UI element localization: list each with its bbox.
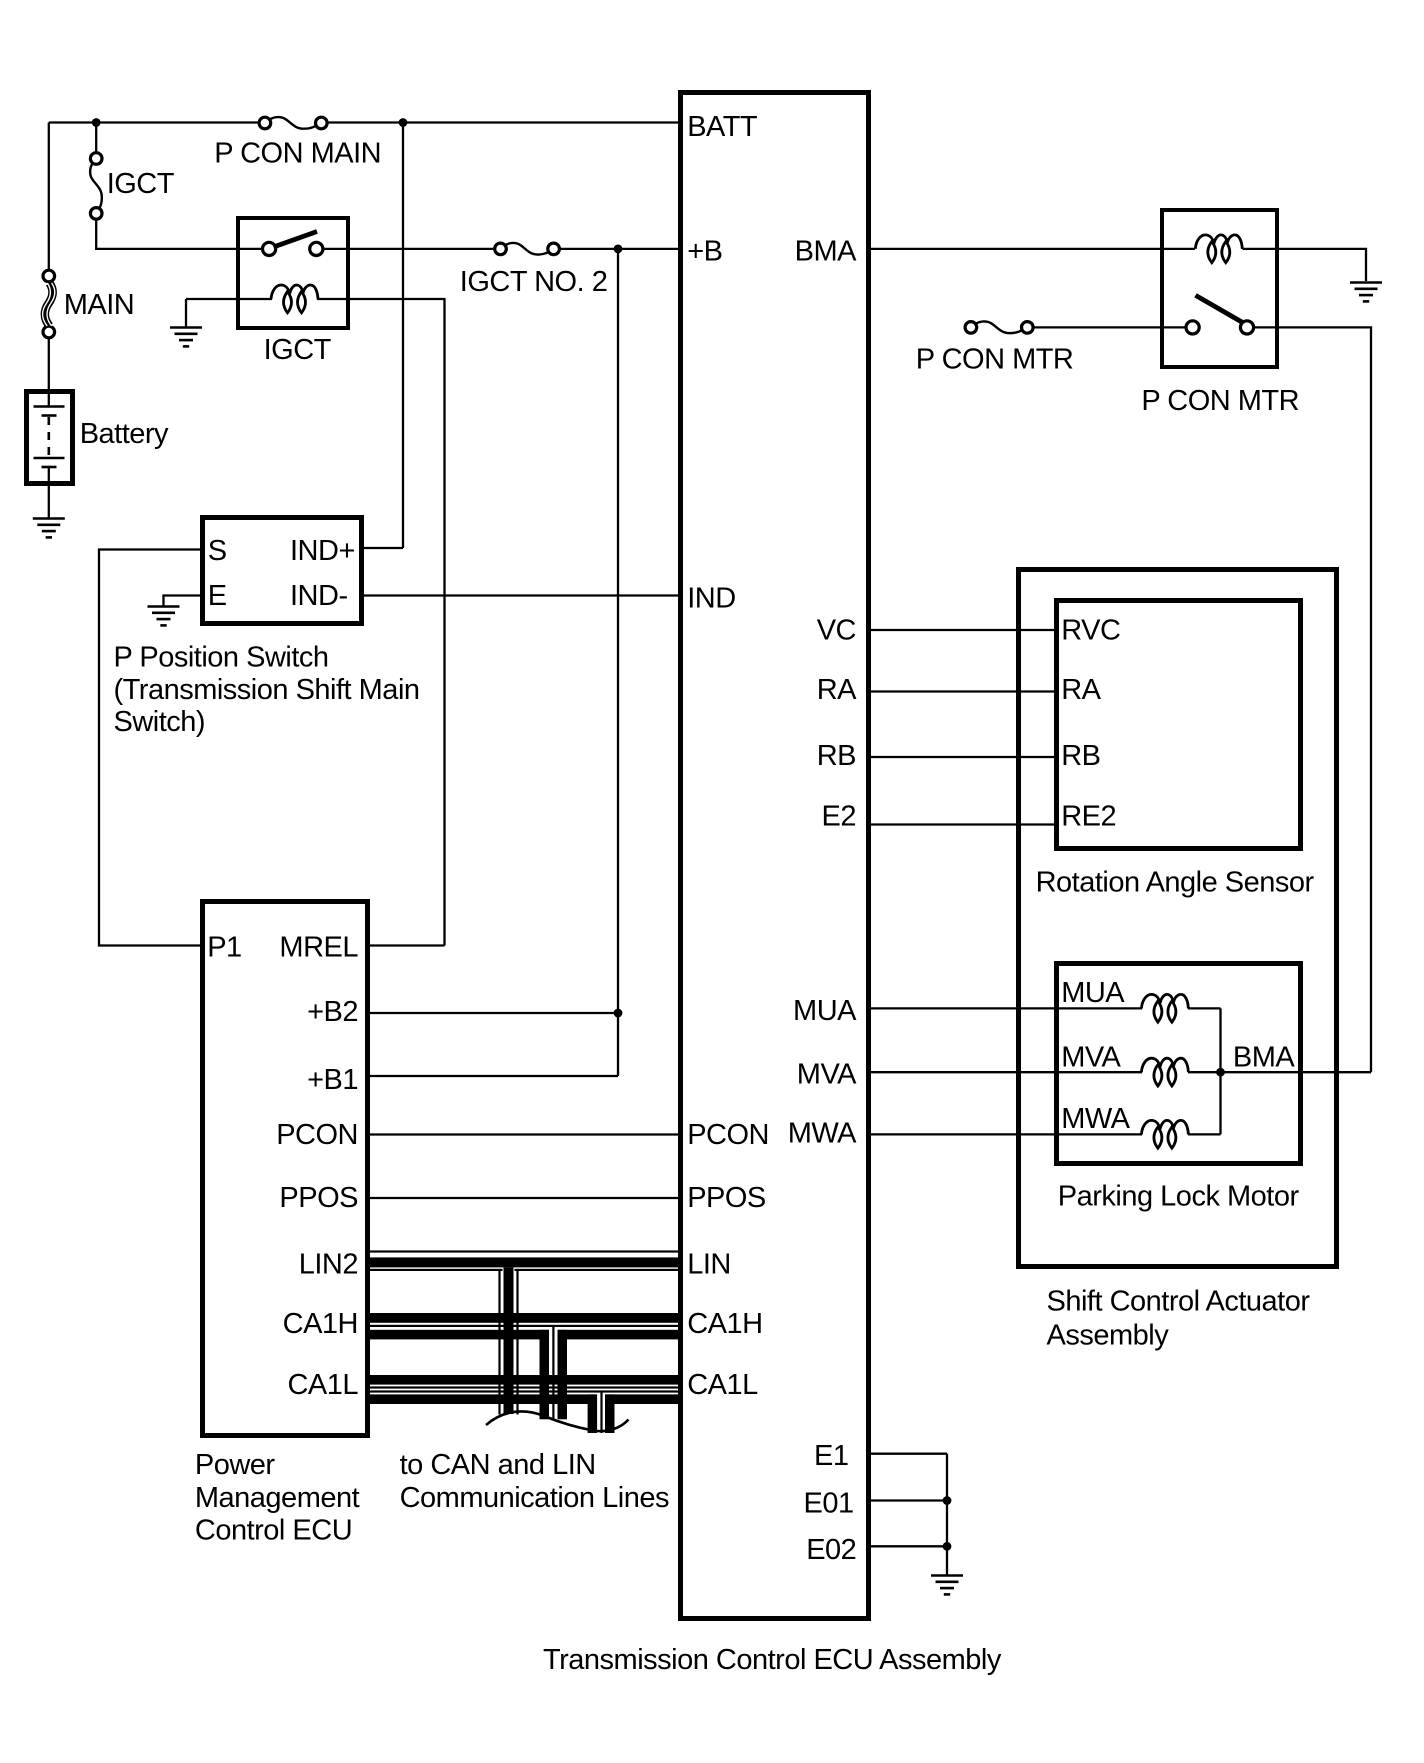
svg-text:Switch): Switch) xyxy=(114,706,206,738)
fuse P CON MTR xyxy=(965,321,1033,333)
fuse MAIN (fusible link) xyxy=(43,270,55,338)
svg-text:VC: VC xyxy=(817,615,856,647)
wire: IND- to ECU IND xyxy=(364,594,678,596)
svg-text:CA1H: CA1H xyxy=(687,1308,762,1340)
coil MUA winding xyxy=(1141,994,1188,1022)
wire: fuse output to ECU BATT xyxy=(328,121,678,123)
wire: E1 xyxy=(871,1453,947,1455)
wire: fuse to ECU +B xyxy=(560,248,678,250)
relay IGCT switch contacts xyxy=(263,242,276,255)
bus CA1L cable xyxy=(368,1375,680,1404)
svg-text:MVA: MVA xyxy=(1061,1041,1121,1073)
sensor box Rotation Angle Sensor xyxy=(1057,601,1301,849)
break mark squiggle xyxy=(486,1411,629,1431)
svg-text:Communication Lines: Communication Lines xyxy=(400,1482,669,1514)
wire: battery to ground xyxy=(48,467,50,518)
PMC box Power Management Control ECU xyxy=(203,902,368,1436)
relay P CON MTR switch contacts xyxy=(1186,321,1199,334)
svg-text:MUA: MUA xyxy=(793,995,857,1027)
svg-text:(Transmission Shift Main: (Transmission Shift Main xyxy=(114,674,420,706)
svg-text:Battery: Battery xyxy=(80,418,169,450)
svg-text:Transmission Control ECU Assem: Transmission Control ECU Assembly xyxy=(543,1644,1002,1676)
wire: +B junction down to +B1 level xyxy=(617,249,619,1076)
ECU box Transmission Control ECU Assembly xyxy=(681,93,869,1619)
svg-text:Management: Management xyxy=(195,1482,360,1514)
svg-text:MAIN: MAIN xyxy=(64,289,135,321)
wire: left battery column vertical xyxy=(48,123,50,271)
svg-text:+B: +B xyxy=(687,236,722,268)
svg-text:E2: E2 xyxy=(822,801,856,833)
wire: MUA coil out xyxy=(1188,1007,1221,1009)
relay P CON MTR switch blade xyxy=(1196,295,1244,323)
bus LIN branch xyxy=(498,1267,518,1414)
svg-text:IGCT: IGCT xyxy=(264,334,332,366)
wire: E2 to RE2 xyxy=(871,823,1054,825)
svg-text:IND-: IND- xyxy=(290,580,348,612)
svg-text:CA1H: CA1H xyxy=(283,1308,358,1340)
switch box P Position Switch xyxy=(203,518,362,624)
wire: MVA coil out xyxy=(1188,1071,1221,1073)
wire: motor BMA out xyxy=(1221,1071,1372,1073)
svg-text:MUA: MUA xyxy=(1061,977,1125,1009)
bus CA1H branch xyxy=(540,1327,568,1419)
svg-text:MWA: MWA xyxy=(1061,1103,1130,1135)
svg-text:PPOS: PPOS xyxy=(687,1182,766,1214)
svg-text:RA: RA xyxy=(817,674,857,706)
svg-text:E02: E02 xyxy=(806,1534,856,1566)
wire: MWA coil out xyxy=(1188,1133,1221,1135)
wire: battery top feed horizontal xyxy=(49,121,258,123)
wire: RB xyxy=(871,756,1054,758)
svg-text:LIN: LIN xyxy=(687,1248,731,1280)
wire: MVA xyxy=(871,1071,1142,1073)
fuse IGCT xyxy=(90,153,102,220)
relay IGCT coil xyxy=(271,285,318,313)
wire: IND+ vertical xyxy=(402,123,404,549)
bus LIN cable xyxy=(368,1250,680,1271)
svg-text:Power: Power xyxy=(195,1449,276,1481)
wire: +B2 horizontal xyxy=(370,1012,618,1014)
wire: MWA xyxy=(871,1133,1142,1135)
wire: E02 xyxy=(871,1545,947,1547)
svg-text:IGCT: IGCT xyxy=(107,168,175,200)
svg-text:MVA: MVA xyxy=(797,1059,857,1091)
wire: motor common vertical xyxy=(1219,1008,1221,1134)
svg-text:IND: IND xyxy=(687,583,735,615)
actuator assembly box xyxy=(1019,570,1337,1267)
fuse P CON MAIN xyxy=(259,117,327,129)
relay IGCT box xyxy=(238,218,348,328)
svg-text:BMA: BMA xyxy=(1233,1041,1296,1073)
svg-text:PCON: PCON xyxy=(687,1119,769,1151)
wire: IGCT fuse to relay switch xyxy=(96,219,263,249)
bus CA1H cable xyxy=(368,1313,680,1339)
battery Battery xyxy=(27,392,73,484)
svg-text:RE2: RE2 xyxy=(1061,801,1116,833)
svg-text:MREL: MREL xyxy=(279,932,358,964)
ground at ECU E01/E02 xyxy=(931,1576,963,1595)
wire: battery stem into battery box xyxy=(48,338,50,406)
ground below battery xyxy=(33,519,65,538)
wire: S to P1 xyxy=(99,550,200,946)
wire: E01 xyxy=(871,1499,947,1501)
svg-text:LIN2: LIN2 xyxy=(299,1248,358,1280)
wire: +B1 horizontal xyxy=(370,1075,618,1077)
wire: RA xyxy=(871,690,1054,692)
svg-text:PPOS: PPOS xyxy=(279,1182,358,1214)
svg-text:P Position Switch: P Position Switch xyxy=(114,641,329,673)
node: motor BMA junction xyxy=(1216,1068,1225,1077)
svg-text:PCON: PCON xyxy=(276,1119,358,1151)
wire: coil right lead to MREL column xyxy=(317,299,445,946)
wire: E to ground xyxy=(164,596,201,608)
wire: MREL horizontal xyxy=(370,944,445,946)
svg-text:MWA: MWA xyxy=(788,1118,857,1150)
svg-text:E01: E01 xyxy=(803,1487,853,1519)
svg-text:E1: E1 xyxy=(814,1440,848,1472)
wire: VC to RVC xyxy=(871,629,1054,631)
relay P CON MTR box xyxy=(1162,210,1277,367)
node: E01 junction xyxy=(943,1496,952,1505)
svg-text:P1: P1 xyxy=(207,932,241,964)
wire: MUA xyxy=(871,1007,1142,1009)
node: +B2 junction xyxy=(614,1009,623,1018)
svg-text:CA1L: CA1L xyxy=(287,1369,358,1401)
wire: PPOS xyxy=(370,1197,678,1199)
svg-text:S: S xyxy=(208,535,227,567)
coil MVA winding xyxy=(1141,1058,1188,1086)
svg-text:BMA: BMA xyxy=(795,236,858,268)
wire: relay switch to IGCT NO. 2 fuse xyxy=(322,248,495,250)
coil MWA winding xyxy=(1141,1120,1188,1148)
relay P CON MTR coil xyxy=(1195,235,1242,263)
svg-text:+B1: +B1 xyxy=(307,1064,358,1096)
svg-text:+B2: +B2 xyxy=(307,996,358,1028)
fuse IGCT NO. 2 xyxy=(495,243,560,255)
svg-text:Control ECU: Control ECU xyxy=(195,1515,352,1547)
ground at E xyxy=(148,607,180,626)
ground at relay coil xyxy=(170,328,202,347)
node: junction at IND+ column xyxy=(399,118,408,127)
wire: relay coil left lead xyxy=(186,298,272,300)
svg-text:Rotation Angle Sensor: Rotation Angle Sensor xyxy=(1036,867,1315,899)
wire: PCON xyxy=(370,1133,678,1135)
wire: top wire down to IGCT fuse xyxy=(95,123,97,153)
wire: coil to ground xyxy=(1243,249,1367,281)
relay IGCT switch blade xyxy=(274,232,318,248)
svg-text:RB: RB xyxy=(1061,740,1100,772)
wire: relay switch output down to motor BMA xyxy=(1253,327,1371,1072)
svg-text:Assembly: Assembly xyxy=(1047,1319,1170,1351)
svg-text:P CON MTR: P CON MTR xyxy=(916,344,1074,376)
svg-text:BATT: BATT xyxy=(687,111,758,143)
svg-text:RB: RB xyxy=(817,740,856,772)
motor box Parking Lock Motor xyxy=(1057,964,1301,1164)
node: junction at battery column xyxy=(92,118,101,127)
svg-text:to CAN and LIN: to CAN and LIN xyxy=(400,1449,596,1481)
svg-text:P CON MAIN: P CON MAIN xyxy=(214,137,381,169)
wire: coil ground stem xyxy=(185,299,187,327)
node: +B junction xyxy=(614,245,623,254)
svg-text:Parking Lock Motor: Parking Lock Motor xyxy=(1058,1181,1300,1213)
wire: fuse to relay switch xyxy=(1033,326,1186,328)
svg-text:RVC: RVC xyxy=(1061,615,1120,647)
node: E02 junction xyxy=(943,1542,952,1551)
wire: E ground vertical xyxy=(946,1454,948,1576)
ground at P CON MTR coil xyxy=(1350,283,1382,302)
wire: IND+ horizontal xyxy=(364,547,403,549)
svg-text:RA: RA xyxy=(1061,674,1101,706)
svg-text:E: E xyxy=(208,580,227,612)
bus CA1L branch xyxy=(588,1392,615,1433)
svg-text:P CON MTR: P CON MTR xyxy=(1141,385,1299,417)
svg-text:IGCT NO. 2: IGCT NO. 2 xyxy=(460,266,608,298)
svg-text:IND+: IND+ xyxy=(290,535,355,567)
svg-text:CA1L: CA1L xyxy=(687,1369,758,1401)
svg-text:Shift Control Actuator: Shift Control Actuator xyxy=(1047,1286,1311,1318)
wire: BMA to relay coil xyxy=(871,248,1195,250)
